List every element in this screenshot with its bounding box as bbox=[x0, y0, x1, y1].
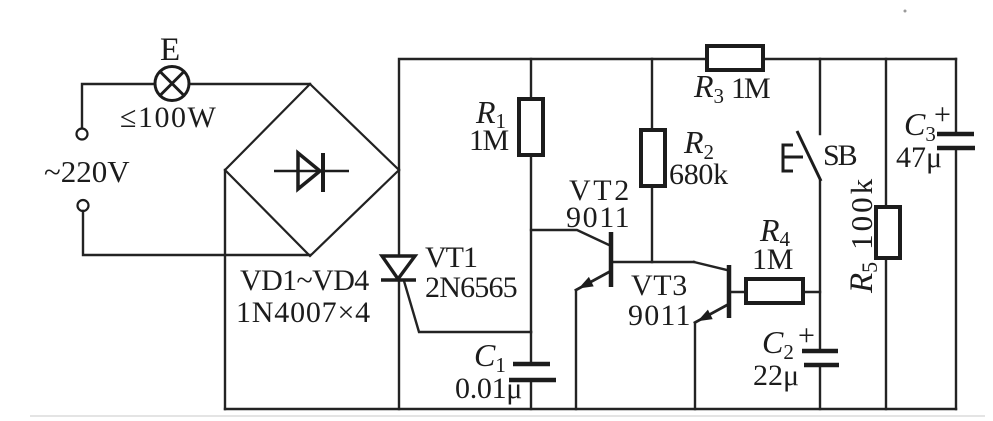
bridge inner diode bbox=[274, 153, 349, 192]
wire bridge left vertex down to bottom rail bbox=[224, 170, 226, 409]
wire top terminal to lamp bbox=[82, 84, 154, 128]
wire R5 top lead bbox=[885, 59, 887, 207]
scan artifact: speck bbox=[904, 10, 907, 13]
transistor VT3 bbox=[727, 265, 732, 318]
svg-text:+: + bbox=[934, 98, 951, 131]
resistor R5 bbox=[876, 207, 900, 258]
wire C3 bottom lead right edge bbox=[955, 148, 957, 409]
svg-text:VT3: VT3 bbox=[631, 269, 688, 302]
wire VT3 base diagonal bbox=[694, 262, 727, 270]
resistor R2 bbox=[641, 130, 665, 186]
wire VT2 collector to VT3 base node bbox=[612, 261, 694, 263]
svg-text:E: E bbox=[160, 32, 180, 68]
wire VT1 cathode to bottom rail bbox=[398, 280, 400, 409]
lamp E bbox=[155, 67, 189, 101]
wire R4 to C2 node bbox=[803, 291, 820, 293]
svg-text:~220V: ~220V bbox=[44, 154, 130, 189]
wire top rail right segment from R3 to right edge bbox=[763, 58, 956, 60]
wire VT3 collector to R4 bbox=[732, 291, 746, 293]
svg-text:9011: 9011 bbox=[628, 299, 692, 332]
svg-text:47μ: 47μ bbox=[896, 141, 942, 174]
wire SB bottom lead through R4 node to C2 bbox=[819, 181, 821, 350]
svg-text:R5100k: R5100k bbox=[844, 176, 882, 294]
capacitor C3 bbox=[937, 134, 975, 148]
svg-text:+: + bbox=[798, 319, 815, 352]
transistor VT2 bbox=[609, 232, 614, 287]
svg-text:SB: SB bbox=[823, 139, 857, 172]
svg-text:VD1~VD4: VD1~VD4 bbox=[240, 264, 369, 297]
wire R1 top lead bbox=[530, 59, 532, 99]
wire VT2 base bbox=[531, 230, 609, 245]
wire R2 top lead bbox=[651, 59, 653, 130]
wire lamp to bridge top vertex bbox=[190, 83, 310, 85]
wire right edge top to C3 bbox=[955, 59, 957, 133]
wire VT1 gate to node at C1 bbox=[404, 281, 531, 332]
svg-text:9011: 9011 bbox=[566, 201, 631, 234]
svg-text:22μ: 22μ bbox=[753, 359, 799, 392]
svg-text:≤100W: ≤100W bbox=[120, 101, 217, 134]
scan artifact: faint bottom streak bbox=[30, 415, 985, 417]
VT2 emitter arrowhead bbox=[579, 277, 594, 289]
capacitor C1 bbox=[509, 364, 556, 380]
wire VT1 anode bbox=[398, 170, 400, 256]
capacitor C2 bbox=[802, 351, 839, 365]
pushbutton SB bbox=[783, 131, 821, 181]
svg-text:1N4007×4: 1N4007×4 bbox=[236, 296, 371, 329]
wire C1 top lead bbox=[530, 332, 532, 363]
wire VT3 emitter down to bottom rail bbox=[695, 305, 728, 410]
svg-text:0.01μ: 0.01μ bbox=[455, 372, 522, 405]
VT3 emitter arrowhead bbox=[698, 310, 713, 322]
wire R1 bottom lead to gate node bbox=[530, 155, 532, 332]
wire bottom terminal to bridge bottom vertex bbox=[83, 211, 310, 255]
bridge rectifier VD1~VD4 diamond bbox=[225, 84, 399, 256]
terminal top bbox=[77, 129, 88, 140]
resistor R4 bbox=[746, 279, 803, 303]
wire bottom rail bbox=[225, 408, 956, 410]
svg-text:1M: 1M bbox=[752, 243, 793, 276]
wire R5 bottom lead bbox=[885, 258, 887, 409]
terminal bottom bbox=[78, 200, 89, 211]
wire VT2 emitter down to bottom rail bbox=[576, 272, 609, 409]
thyristor VT1 bbox=[381, 256, 416, 280]
svg-text:680k: 680k bbox=[669, 158, 728, 191]
wire C1 bottom lead bbox=[530, 381, 532, 409]
wire SB top lead bbox=[819, 59, 821, 134]
wire R2 bottom lead bbox=[651, 186, 653, 262]
svg-text:1M: 1M bbox=[731, 72, 770, 105]
resistor R1 bbox=[519, 99, 543, 155]
wire bridge right vertex up and top rail left segment to R3 bbox=[399, 59, 707, 170]
svg-text:1M: 1M bbox=[469, 124, 509, 157]
resistor R3 bbox=[707, 46, 763, 70]
wire C2 bottom lead bbox=[819, 366, 821, 409]
svg-text:VT1: VT1 bbox=[425, 241, 477, 274]
svg-text:2N6565: 2N6565 bbox=[425, 271, 517, 304]
